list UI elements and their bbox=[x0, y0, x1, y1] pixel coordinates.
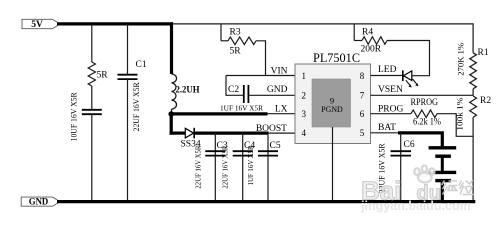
capacitor C2 bbox=[220, 85, 264, 113]
svg-text:2: 2 bbox=[302, 91, 307, 101]
wire BAT thick bbox=[398, 133, 442, 147]
IC pin numbers bbox=[302, 71, 365, 138]
svg-text:7: 7 bbox=[360, 91, 365, 101]
svg-text:jingyan.baidu.com: jingyan.baidu.com bbox=[360, 199, 471, 213]
svg-text:VSEN: VSEN bbox=[378, 85, 403, 95]
svg-text:PGND: PGND bbox=[321, 104, 343, 114]
wire GND pin to pad bbox=[248, 94, 312, 96]
svg-text:3: 3 bbox=[302, 109, 307, 119]
svg-text:4: 4 bbox=[302, 128, 307, 138]
wire R2 to ground bbox=[472, 117, 474, 201]
svg-text:200R: 200R bbox=[361, 45, 382, 55]
watermark jingyan characters bbox=[442, 180, 475, 195]
svg-text:PL7501C: PL7501C bbox=[313, 51, 360, 65]
wire LX pin stub bbox=[268, 113, 296, 115]
node LX junction bbox=[168, 111, 174, 117]
resistor RPROG bbox=[371, 98, 442, 128]
wire BOOST thick bbox=[194, 132, 268, 135]
svg-text:R2: R2 bbox=[480, 96, 491, 106]
svg-text:10UF 16V X5R: 10UF 16V X5R bbox=[68, 92, 78, 141]
wire VIN bbox=[226, 75, 295, 77]
battery BT1 bbox=[429, 148, 457, 202]
svg-text:22UF 16V X5R: 22UF 16V X5R bbox=[221, 145, 230, 189]
wire R1 to VSEN bbox=[472, 89, 474, 96]
IC U1 PL7501C body bbox=[295, 51, 371, 143]
diode SS34 bbox=[170, 128, 201, 150]
svg-text:6: 6 bbox=[360, 109, 365, 119]
svg-text:BAT: BAT bbox=[378, 123, 396, 133]
wire LX down to diode bbox=[170, 114, 173, 135]
svg-text:C5: C5 bbox=[270, 141, 281, 151]
IC U1 PGND pad 9 bbox=[312, 79, 351, 127]
wire BAT pin stub bbox=[371, 132, 399, 134]
capacitor C1 bbox=[118, 24, 147, 202]
svg-text:1: 1 bbox=[302, 71, 307, 81]
capacitor 10UF 16V X5R bbox=[68, 92, 101, 141]
capacitor C3 bbox=[193, 133, 228, 201]
capacitor C6 bbox=[377, 133, 415, 202]
resistor R1 bbox=[457, 42, 489, 88]
capacitor C5 bbox=[246, 133, 281, 201]
svg-text:1UF 16V X5R: 1UF 16V X5R bbox=[220, 103, 264, 112]
wire BOOST pin stub bbox=[269, 132, 296, 134]
IC pin name labels bbox=[256, 65, 404, 134]
wire 5R branch bbox=[91, 24, 93, 202]
wire R3 to VIN bbox=[256, 41, 266, 75]
wire VIN corner to C2 bbox=[226, 76, 244, 96]
svg-text:GND: GND bbox=[29, 197, 49, 207]
inductor 2.2UH bbox=[172, 22, 201, 114]
watermark baidu jingyan paw bbox=[361, 165, 441, 205]
LED D1 bbox=[371, 70, 419, 87]
svg-text:270K 1%: 270K 1% bbox=[457, 42, 466, 75]
svg-text:C1: C1 bbox=[136, 60, 147, 70]
svg-text:6.2k 1%: 6.2k 1% bbox=[413, 118, 441, 128]
svg-text:5V: 5V bbox=[31, 20, 43, 30]
wire R4 to LED bbox=[387, 41, 430, 76]
svg-text:22UF 16V X5R: 22UF 16V X5R bbox=[193, 145, 202, 189]
wire 5V thin to R1 branch bbox=[173, 24, 473, 53]
ground flag GND bbox=[21, 197, 60, 207]
power flag 5V bbox=[22, 19, 60, 30]
wire GND thick bbox=[57, 200, 475, 203]
svg-text:LX: LX bbox=[275, 105, 288, 115]
svg-text:GND: GND bbox=[267, 85, 288, 95]
svg-text:5R: 5R bbox=[97, 71, 109, 81]
svg-text:C6: C6 bbox=[404, 140, 415, 150]
capacitor C4 bbox=[221, 133, 256, 201]
resistor R2 bbox=[456, 96, 492, 131]
svg-text:VIN: VIN bbox=[271, 66, 288, 76]
svg-text:R3: R3 bbox=[230, 27, 241, 37]
svg-text:LED: LED bbox=[378, 65, 397, 75]
svg-text:R4: R4 bbox=[362, 27, 373, 37]
svg-text:22UF 16V X5R: 22UF 16V X5R bbox=[131, 82, 141, 131]
svg-text:5R: 5R bbox=[230, 47, 242, 57]
wire LX thick bbox=[171, 112, 267, 115]
resistor R3 bbox=[221, 24, 256, 57]
svg-text:8: 8 bbox=[360, 71, 365, 81]
svg-text:RPROG: RPROG bbox=[411, 98, 439, 108]
wire 5V thick bbox=[57, 22, 173, 25]
svg-text:BOOST: BOOST bbox=[256, 124, 287, 134]
wire RPROG to ground bbox=[437, 114, 473, 137]
svg-text:5: 5 bbox=[360, 128, 365, 138]
resistor R4 bbox=[354, 24, 387, 55]
svg-text:C2: C2 bbox=[228, 85, 239, 95]
svg-text:PROG: PROG bbox=[378, 104, 403, 114]
svg-text:1UF 16V X5R: 1UF 16V X5R bbox=[246, 145, 255, 186]
resistor 5R bbox=[88, 62, 108, 86]
svg-text:100k 1%: 100k 1% bbox=[456, 97, 465, 130]
wire VSEN bbox=[371, 94, 474, 96]
wire PGND to ground bbox=[332, 127, 334, 201]
svg-text:2.2UH: 2.2UH bbox=[176, 85, 201, 95]
svg-text:R1: R1 bbox=[478, 48, 489, 58]
